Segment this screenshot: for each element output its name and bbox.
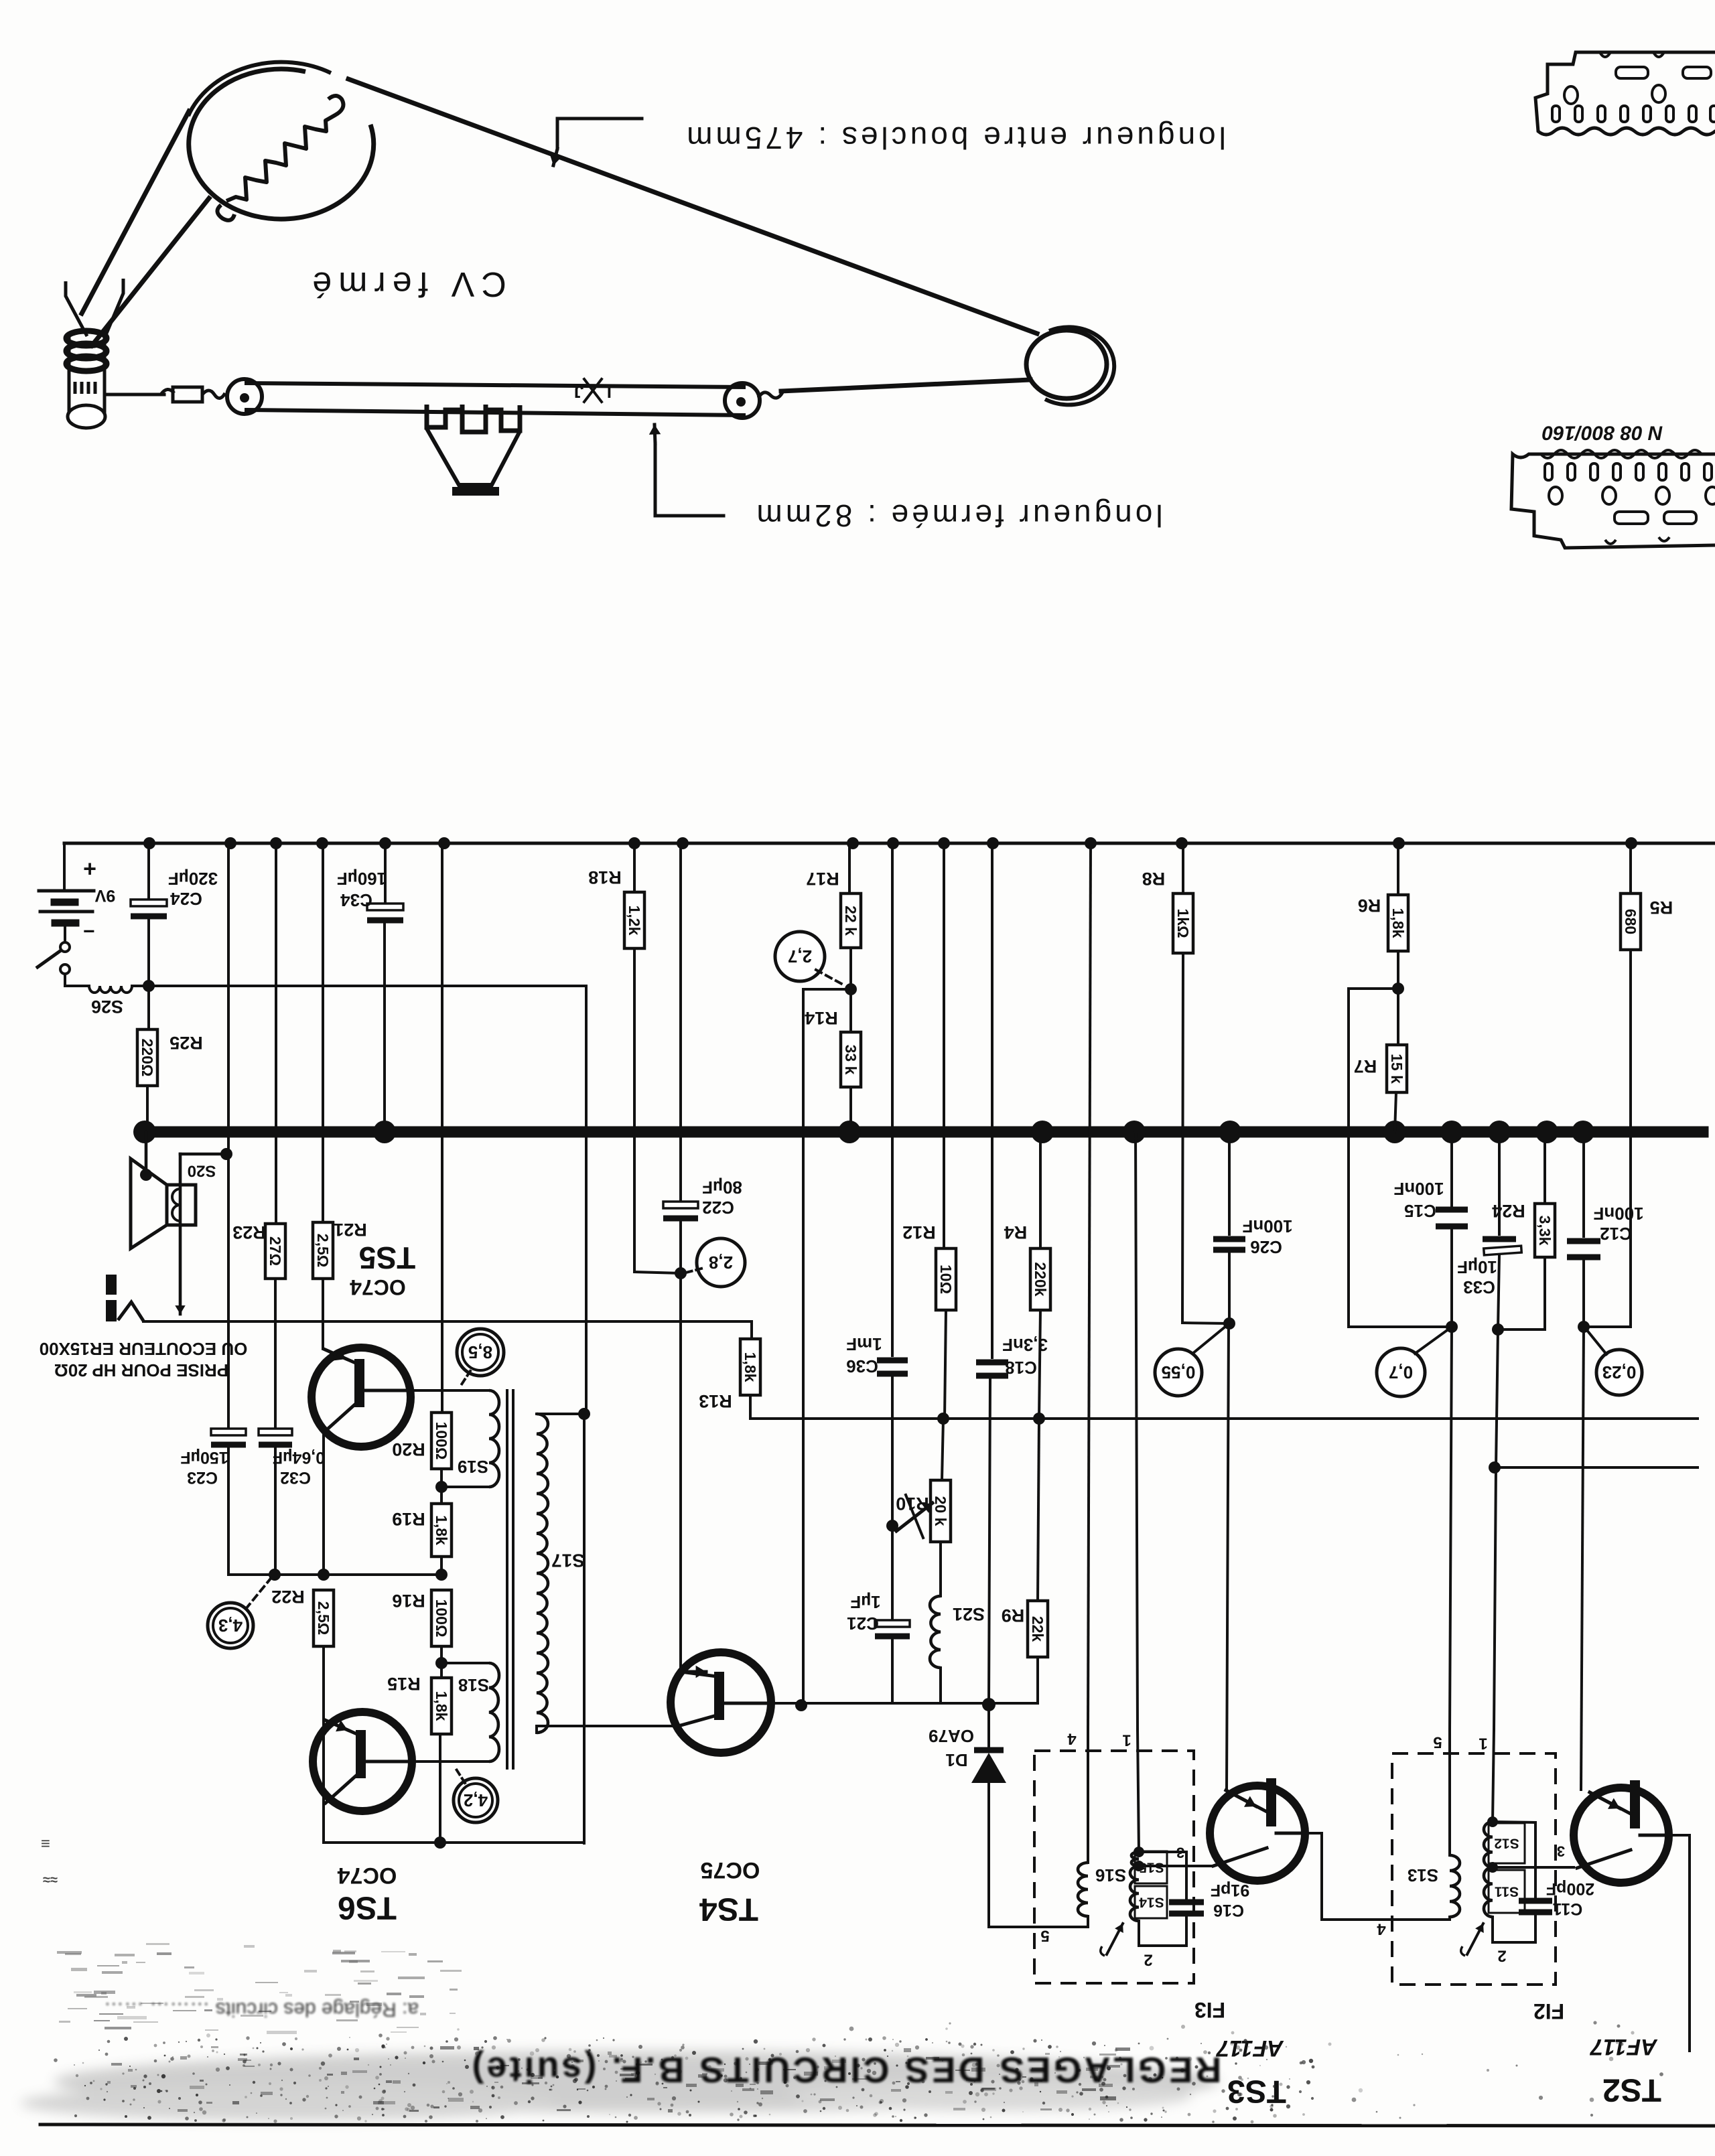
svg-text:FI2: FI2	[1533, 1999, 1564, 2023]
svg-text:9V: 9V	[94, 886, 115, 905]
pointer 4,3	[246, 1579, 270, 1609]
junction C22/R18	[675, 1267, 687, 1279]
junction on thick bus	[1440, 1121, 1463, 1143]
title REGLAGES DES CIRCUITS BF	[469, 2050, 1221, 2090]
junction on thick bus	[1383, 1121, 1406, 1143]
wire +9V top rail	[64, 842, 1715, 845]
junction on top rail	[1176, 837, 1188, 849]
svg-text:220Ω: 220Ω	[139, 1039, 156, 1077]
junction on top rail	[316, 837, 328, 849]
wire TS4 base line	[771, 1702, 941, 1705]
pointer 8,5	[460, 1371, 470, 1386]
svg-text:S19: S19	[458, 1457, 488, 1477]
resistor R17	[841, 893, 861, 948]
label R5	[1650, 897, 1673, 918]
wire FI2 pin1 to S12	[1493, 1730, 1494, 1822]
label C36 value	[846, 1334, 882, 1354]
pin 1 FI2	[1479, 1735, 1487, 1753]
label OA79	[929, 1726, 974, 1746]
wire y2351 line	[275, 1573, 441, 1576]
pot R10 wiper arrow	[896, 1495, 933, 1538]
wire R13 to AGC line	[749, 1395, 752, 1419]
wire y2191 line	[1495, 1466, 1698, 1469]
wire x2233 to FI2 pin1	[1494, 1467, 1496, 1730]
svg-text:R14: R14	[805, 1008, 838, 1028]
coil S21	[930, 1596, 941, 1668]
label C22 value	[702, 1177, 742, 1198]
label C12 value	[1593, 1204, 1643, 1224]
wire R18 down to corner	[634, 948, 681, 1273]
wire R7 to bus	[1395, 1092, 1396, 1132]
wire TS2 emitter path	[1669, 1835, 1690, 2051]
wire vertical x1196 down	[802, 989, 805, 1706]
wire vertical x482 rail to R21	[322, 843, 324, 1222]
resistor R8	[1173, 893, 1193, 953]
wire R21 to TS5 emitter	[322, 1279, 324, 1348]
svg-text:22k: 22k	[1029, 1616, 1046, 1642]
wire R17 top	[848, 843, 851, 893]
smudge text line	[57, 1950, 462, 2034]
svg-text:100nF: 100nF	[1593, 1204, 1643, 1224]
svg-text:100Ω: 100Ω	[433, 1422, 450, 1460]
svg-text:S12: S12	[1494, 1836, 1519, 1851]
wire bus to C33	[1498, 1132, 1501, 1234]
label C16	[1213, 1901, 1244, 1920]
speaker	[131, 1159, 196, 1248]
capacitor C34	[367, 904, 403, 920]
label FI3	[1194, 1998, 1225, 2022]
coil S18	[489, 1663, 499, 1762]
power switch	[38, 942, 70, 974]
svg-text:longueur entre boucles : 475mm: longueur entre boucles : 475mm	[683, 121, 1226, 155]
svg-text:R21: R21	[334, 1220, 367, 1240]
svg-text:8,5: 8,5	[468, 1342, 492, 1362]
svg-text:3: 3	[1176, 1845, 1184, 1861]
test point 2,7	[775, 932, 825, 981]
wire S17 bottom to TS4 emitter	[537, 1726, 676, 1733]
wire R24 bracket	[1498, 1257, 1545, 1329]
wire C34 to bus	[383, 924, 386, 1132]
svg-text:C11: C11	[1553, 1899, 1583, 1918]
JxL mark on dial bar	[574, 379, 612, 402]
svg-text:R25: R25	[169, 1033, 203, 1053]
dial cord drum	[188, 62, 374, 219]
svg-text:R16: R16	[392, 1591, 425, 1611]
label C34 value	[337, 869, 387, 889]
label R14	[805, 1008, 838, 1028]
svg-text:C26: C26	[1250, 1237, 1282, 1257]
wire R22 to TS6 emitter	[322, 1646, 325, 1843]
capacitor C23	[211, 1429, 246, 1445]
svg-text:PRISE POUR HP 20Ω: PRISE POUR HP 20Ω	[54, 1360, 228, 1380]
svg-text:1,8k: 1,8k	[1389, 908, 1407, 938]
wire FI2 tap to TS2 base	[1493, 1866, 1574, 1869]
wire TS5 base	[411, 1389, 489, 1392]
svg-text:2,8: 2,8	[709, 1252, 733, 1273]
label S12	[1494, 1836, 1519, 1851]
IF transformer FI3 box	[1034, 1751, 1194, 1983]
battery 9V	[39, 891, 94, 923]
transistor TS3 AF117	[1210, 1778, 1305, 1881]
wire R8 top	[1182, 843, 1184, 893]
resistor R20	[431, 1413, 452, 1469]
capacitor C15	[1436, 1210, 1468, 1226]
coil S14	[1130, 1866, 1167, 1921]
label C12	[1600, 1224, 1632, 1244]
svg-text:OA79: OA79	[929, 1726, 974, 1746]
wire R6 to R7	[1397, 951, 1399, 1045]
junction on thick bus	[1572, 1121, 1594, 1143]
wire AGC line	[750, 1417, 1698, 1420]
wire switch to S26	[65, 974, 89, 986]
transistor TS5 OC74	[312, 1348, 411, 1447]
wire R24 top	[1543, 1132, 1546, 1204]
resistor R22	[314, 1590, 334, 1646]
svg-text:0,23: 0,23	[1602, 1362, 1637, 1382]
svg-text:TS6: TS6	[338, 1890, 397, 1926]
svg-text:100Ω: 100Ω	[433, 1599, 450, 1638]
wire D1 top	[987, 1705, 990, 1746]
wire S14 bottom loop	[1139, 1917, 1186, 1946]
svg-text:OU ECOUTEUR ER15X00: OU ECOUTEUR ER15X00	[40, 1339, 248, 1359]
pin 5 FI3	[1040, 1927, 1049, 1945]
wire bus to R4	[1039, 1132, 1042, 1248]
svg-text:160µF: 160µF	[337, 869, 387, 889]
svg-text:20 k: 20 k	[932, 1496, 949, 1526]
wire vertical x947 rail to R18	[633, 843, 636, 892]
svg-text:80µF: 80µF	[702, 1177, 742, 1198]
label S17	[551, 1551, 585, 1571]
label C15 value	[1393, 1179, 1444, 1199]
coil S11	[1484, 1867, 1525, 1917]
label C23 value	[180, 1448, 228, 1467]
wire S18 top	[441, 1662, 489, 1664]
junction R20/R19	[435, 1481, 448, 1493]
wire stub to x1196	[803, 988, 851, 991]
svg-text:C34: C34	[340, 890, 372, 910]
dial big loop pulley	[1026, 327, 1114, 405]
junction C33/R24	[1492, 1323, 1504, 1336]
svg-text:TS2: TS2	[1602, 2072, 1661, 2108]
svg-text:S17: S17	[551, 1551, 585, 1571]
svg-text:S11: S11	[1495, 1884, 1519, 1899]
junction R16/R15 S18	[435, 1657, 448, 1669]
wire R15 down	[439, 1734, 441, 1843]
resistor R7	[1387, 1045, 1407, 1092]
CV tuning shaft with cord wraps	[66, 331, 107, 428]
label S14	[1139, 1895, 1164, 1910]
junction on thick bus	[1219, 1121, 1241, 1143]
wire x872 vertical	[584, 986, 586, 1843]
svg-text:OC74: OC74	[350, 1275, 406, 1299]
label C18 value	[1002, 1335, 1048, 1355]
svg-text:0,55: 0,55	[1162, 1362, 1196, 1382]
label D1	[945, 1750, 967, 1770]
pointer 4,2	[456, 1768, 465, 1783]
wire R6 top	[1397, 843, 1399, 895]
label battery 9V	[94, 886, 115, 905]
wire AGC to R10	[942, 1419, 943, 1480]
wire FI2 S13 line	[1448, 1730, 1451, 1855]
junction R6/R7	[1392, 983, 1404, 995]
wire R5 bracket	[1584, 950, 1631, 1327]
pin 3 FI2	[1557, 1843, 1565, 1860]
label S16	[1095, 1865, 1126, 1885]
svg-text:0,7: 0,7	[1389, 1362, 1413, 1382]
label C11	[1553, 1899, 1583, 1918]
wire S21 bottom	[941, 1668, 989, 1703]
junction on top rail	[938, 837, 950, 849]
svg-text:200pF: 200pF	[1546, 1879, 1594, 1898]
svg-text:10Ω: 10Ω	[937, 1265, 955, 1294]
svg-text:2,7: 2,7	[788, 946, 812, 966]
wire dial cord drum-to-shaft upper	[82, 111, 189, 313]
svg-text:≡: ≡	[41, 1835, 50, 1853]
label S20	[188, 1162, 216, 1180]
label CV ferme	[305, 265, 506, 303]
wire R9 bottom corner	[989, 1657, 1038, 1703]
junction on top rail	[887, 837, 899, 849]
coil S26	[89, 986, 132, 993]
label C26 value	[1242, 1216, 1292, 1236]
pin 3 FI3	[1176, 1845, 1184, 1861]
svg-text:longueur fermée : 82mm: longueur fermée : 82mm	[753, 498, 1162, 533]
wire C24 top	[147, 843, 150, 900]
svg-text:1,2k: 1,2k	[626, 906, 643, 936]
svg-text:C36: C36	[846, 1356, 878, 1376]
junction C12 bottom	[1578, 1321, 1590, 1333]
bottom rule line	[40, 2125, 1715, 2126]
wire x1835 to TS3 collector	[1227, 1323, 1229, 1790]
junction C26/R8	[1223, 1317, 1235, 1329]
capacitor C36	[877, 1360, 908, 1374]
junction x657 bottom	[434, 1837, 446, 1849]
wire FI3 pin1 to S15	[1138, 1730, 1139, 1852]
wire junction to R25	[147, 986, 150, 1029]
svg-text:4,3: 4,3	[218, 1615, 243, 1636]
wire R5 top	[1629, 843, 1632, 893]
label TS2	[1602, 2072, 1661, 2108]
resistor R12	[936, 1248, 956, 1310]
svg-text:C12: C12	[1600, 1224, 1632, 1244]
svg-text:R4: R4	[1004, 1222, 1028, 1242]
resistor R13	[740, 1339, 760, 1395]
wire C12 down	[1582, 1261, 1585, 1327]
smudge band	[20, 2036, 1314, 2123]
wire bus to C12	[1582, 1132, 1585, 1236]
label R22	[271, 1587, 305, 1607]
junction R19/R16	[435, 1569, 448, 1581]
label R10	[896, 1494, 929, 1514]
wire x2236 to y2191	[1496, 1329, 1498, 1467]
cord turnbuckle	[161, 387, 225, 402]
resistor R14	[841, 1032, 861, 1087]
capacitor C24	[131, 900, 167, 916]
svg-text:FI3: FI3	[1194, 1998, 1225, 2022]
resistor R21	[313, 1222, 333, 1279]
svg-text:15 k: 15 k	[1388, 1054, 1405, 1084]
diode D1 OA79	[971, 1750, 1006, 1783]
junction on top rail	[628, 837, 640, 849]
junction S20 top right	[220, 1148, 232, 1160]
junction on top rail	[1393, 837, 1405, 849]
label C32 value	[273, 1448, 325, 1467]
wire C22 down to TS4 collector	[679, 1222, 682, 1673]
coil S13	[1450, 1855, 1460, 1917]
svg-text:C24: C24	[170, 889, 202, 909]
label R23	[232, 1222, 266, 1242]
junction on thick bus	[1488, 1121, 1511, 1143]
wire S20 to jack line with arrow	[175, 1154, 226, 1314]
wire x1625 rail to FI3 pin4	[1088, 843, 1091, 1730]
label C34	[340, 890, 372, 910]
label AF117 TS2	[1589, 2034, 1658, 2060]
capacitor C22	[663, 1202, 698, 1218]
transistor TS6 OC74	[313, 1712, 412, 1811]
pin 4 FI3	[1067, 1730, 1077, 1748]
wire C32 down	[274, 1448, 277, 1575]
svg-text:91pF: 91pF	[1211, 1881, 1249, 1899]
label C24	[170, 889, 202, 909]
label C24 value	[168, 869, 218, 889]
svg-text:S14: S14	[1139, 1895, 1164, 1910]
svg-text:R15: R15	[387, 1674, 421, 1694]
svg-text:1,8k: 1,8k	[742, 1352, 759, 1382]
svg-text:S20: S20	[188, 1162, 216, 1180]
label S11	[1495, 1884, 1519, 1899]
junction on thick bus	[373, 1121, 396, 1143]
wire dial cord lower single run	[781, 380, 1030, 391]
svg-text:C23: C23	[187, 1468, 218, 1487]
svg-text:C32: C32	[280, 1468, 311, 1487]
pin 2 FI3	[1144, 1951, 1152, 1969]
pin 4 FI2	[1377, 1920, 1386, 1938]
label R6	[1358, 895, 1381, 916]
FI3 tuning arrow	[1101, 1924, 1123, 1956]
label R15	[387, 1674, 421, 1694]
label R9	[1002, 1605, 1025, 1626]
svg-text:100nF: 100nF	[1393, 1179, 1444, 1199]
svg-text:5: 5	[1040, 1927, 1049, 1945]
wire vertical x1332 top	[891, 843, 894, 1356]
label R19	[392, 1509, 425, 1529]
label R20	[392, 1439, 425, 1459]
svg-text:1,8k: 1,8k	[433, 1515, 450, 1545]
wire R23 to C32	[274, 1279, 277, 1427]
wire S16 bottom pin5	[1087, 1916, 1089, 1927]
wire R6R7 to x2013	[1349, 989, 1452, 1327]
label prise pour HP line1	[40, 1339, 248, 1359]
cord S-hook right	[758, 392, 782, 398]
label C21	[847, 1613, 879, 1634]
wire bus to FI3 pin1	[1136, 1132, 1138, 1730]
svg-text:≈≈: ≈≈	[43, 1872, 58, 1887]
test point 4,2	[454, 1778, 498, 1822]
junction S12 top	[1487, 1816, 1498, 1827]
test point 4,3	[208, 1603, 253, 1648]
junction S15/S14 tap	[1134, 1861, 1144, 1871]
wire R17-R14	[849, 989, 852, 1032]
svg-text:22 k: 22 k	[842, 906, 860, 936]
label C15	[1404, 1201, 1436, 1221]
label R4	[1004, 1222, 1028, 1242]
svg-text:R8: R8	[1142, 869, 1166, 889]
wire FI3 S16 line	[1087, 1730, 1089, 1863]
IF transformer FI2 box	[1392, 1753, 1556, 1985]
label R7	[1354, 1056, 1377, 1076]
wire AGC to R9	[1038, 1419, 1039, 1601]
label C16 value	[1211, 1881, 1249, 1899]
junction on thick bus	[1031, 1121, 1054, 1143]
svg-text:C16: C16	[1213, 1901, 1244, 1920]
junction R10 wiper	[886, 1520, 898, 1532]
wire bus to C26	[1228, 1132, 1231, 1234]
label TS3	[1227, 2074, 1286, 2109]
wire battery to switch	[64, 923, 66, 942]
dial right small pulley	[725, 383, 760, 418]
wire TS6 emitter bottom	[324, 1841, 583, 1844]
label TS6 OC74 under	[338, 1863, 397, 1926]
wire C18 to D1 junction	[989, 1379, 990, 1703]
svg-text:1kΩ: 1kΩ	[1174, 908, 1192, 938]
label C23	[187, 1468, 218, 1487]
capacitor C18	[976, 1362, 1008, 1376]
wire dial cord upper diagonal	[348, 79, 1037, 334]
svg-text:R13: R13	[699, 1391, 732, 1411]
svg-text:R23: R23	[232, 1222, 266, 1242]
svg-text:AF117: AF117	[1589, 2034, 1658, 2060]
PCB outline fragment lower-right	[1511, 450, 1715, 548]
test point 2,8	[697, 1238, 745, 1287]
FI2 tuning arrow	[1461, 1924, 1484, 1956]
svg-text:J: J	[574, 382, 584, 402]
wire cord shaft to turnbuckle	[106, 393, 164, 397]
label FI2	[1533, 1999, 1564, 2023]
label battery plus	[83, 856, 96, 881]
pointer 0,7	[1415, 1329, 1449, 1354]
wire vertical x575 to C34	[384, 843, 387, 904]
junction TS4 base x1196	[795, 1699, 807, 1711]
wire junction to C21	[891, 1526, 894, 1619]
label R16	[392, 1591, 425, 1611]
pointer 0,55	[1192, 1326, 1226, 1354]
label C26	[1250, 1237, 1282, 1257]
wire TS5 collector down	[322, 1433, 325, 1575]
junction C32 bottom	[269, 1569, 281, 1581]
junction AGC/R10	[937, 1413, 949, 1425]
svg-text:OC74: OC74	[338, 1863, 397, 1888]
junction on top rail	[1625, 837, 1637, 849]
label TS5	[359, 1240, 415, 1275]
svg-text:1,8k: 1,8k	[433, 1691, 450, 1721]
wire R4 to AGC	[1039, 1310, 1040, 1419]
junction D1 top	[982, 1698, 996, 1711]
wire C36 to R10 junction	[891, 1377, 894, 1526]
label C21 value	[850, 1592, 880, 1612]
resistor R25	[137, 1029, 157, 1086]
transistor TS2 AF117	[1574, 1780, 1669, 1883]
svg-text:10µF: 10µF	[1457, 1257, 1497, 1277]
coil S16	[1078, 1863, 1088, 1916]
wire C33 down	[1498, 1255, 1499, 1329]
pin 2 FI2	[1497, 1947, 1506, 1965]
dim arrow 475mm	[550, 119, 642, 165]
capacitor C16	[1169, 1852, 1204, 1914]
svg-text:3: 3	[1557, 1843, 1565, 1860]
junction on top rail	[143, 837, 155, 849]
resistor R24	[1535, 1204, 1555, 1257]
dim arrow 82mm	[649, 425, 724, 516]
